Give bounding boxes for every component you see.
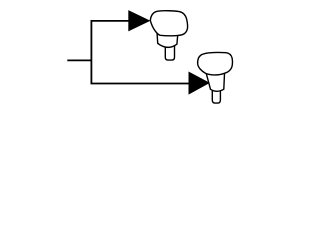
pin P2 head (198, 52, 233, 74)
arrowhead A1 (128, 10, 150, 31)
pin P1 stem (165, 45, 174, 60)
pin P2 stem (212, 89, 220, 103)
pin P1 head (150, 11, 187, 36)
wire (67, 59, 91, 61)
pin P1 collar (157, 33, 178, 47)
pin P2 collar (206, 71, 225, 91)
arrowhead A2 (189, 72, 210, 95)
wire (91, 21, 188, 84)
